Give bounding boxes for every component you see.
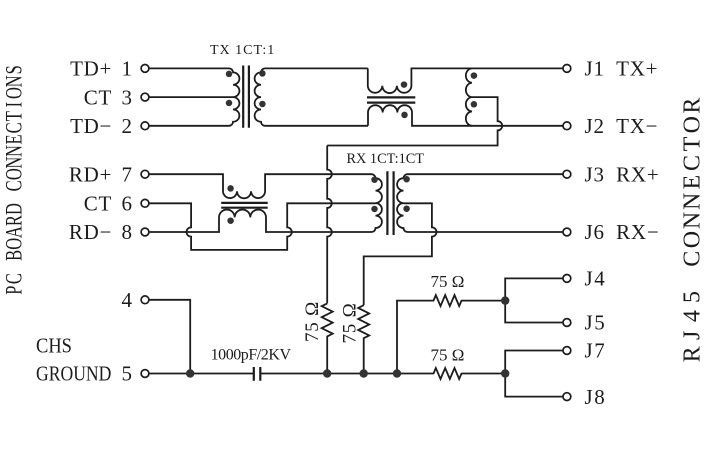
svg-text:O: O [2,238,27,250]
svg-text:75 Ω: 75 Ω [340,302,361,343]
junction dots on ground bus and resistor nodes [186,369,194,377]
L1 centre tap wire with hop over J2 line, down-left to R1 [327,97,502,145]
transformer T4 core [387,171,393,235]
svg-text:7: 7 [122,162,133,186]
svg-text:CT: CT [84,85,112,109]
svg-text:J2 TX−: J2 TX− [585,114,659,138]
J4 / J5 branch wires [505,278,563,322]
svg-text:E: E [2,134,27,144]
ground bus from C1 through resistor R4 to J7/J8 junction [260,368,505,379]
svg-text:4: 4 [122,288,133,312]
transformer T4 primary winding (left, centre-tapped) [372,174,382,232]
svg-text:4: 4 [680,310,705,322]
svg-text:N: N [680,212,705,229]
svg-text:1: 1 [122,57,133,81]
svg-text:TD−: TD− [70,114,112,138]
choke T3 core [221,203,268,208]
svg-text:B: B [2,250,27,261]
svg-text:A: A [2,226,27,238]
svg-text:RX 1CT:1CT: RX 1CT:1CT [347,151,425,167]
svg-text:C: C [680,155,705,171]
svg-text:C: C [2,180,27,191]
choke T2 bottom winding (in J2 line) [368,105,563,126]
choke T2 top winding (in J1 line) [368,68,563,93]
svg-text:O: O [2,87,27,99]
svg-text:75 Ω: 75 Ω [431,272,465,291]
svg-text:J4: J4 [585,267,607,291]
svg-text:3: 3 [122,85,133,109]
svg-text:5: 5 [122,362,133,386]
svg-text:R: R [680,98,705,114]
svg-text:C: C [680,251,705,267]
svg-text:J6 RX−: J6 RX− [585,220,660,244]
wire from TX tap down to R1 with hops over RX lines [327,146,332,304]
T4 polarity dots [371,176,378,183]
resistor R3 75 ohm from bus up to J4/J5 junction [397,295,505,373]
svg-text:J5: J5 [585,311,607,335]
resistor R1 75 ohm (vertical) [322,303,333,373]
transformer T1 core [243,66,249,128]
svg-text:N: N [680,193,705,210]
wire CT pin 3 to T1 primary centre tap [149,96,233,98]
resistor R2 75 ohm (vertical) [358,305,369,373]
L1 polarity dots [471,72,478,79]
side label RJ45 CONNECTOR [680,98,705,363]
svg-text:D: D [2,203,27,215]
svg-text:TX 1CT:1: TX 1CT:1 [210,43,275,58]
svg-text:CHS: CHS [36,335,72,358]
svg-text:CT: CT [84,192,112,216]
T3 polarity dots [227,185,234,192]
svg-text:J: J [680,331,705,340]
svg-text:R: R [2,215,27,227]
svg-text:C: C [2,122,27,133]
svg-text:R: R [680,346,705,362]
svg-text:6: 6 [122,192,133,216]
svg-text:N: N [2,157,27,169]
choke T2 core [367,97,415,102]
svg-text:GROUND: GROUND [36,363,111,386]
T1 polarity dots [226,71,233,78]
wire CT pin 6 routed under choke T3 to T4 centre tap (hops over RD- line) [149,203,376,250]
svg-text:N: N [2,75,27,87]
svg-text:J1 TX+: J1 TX+ [585,57,659,81]
svg-text:O: O [680,116,705,133]
T4 secondary winding (right, centre-tapped) with J3 / J6 wires [397,174,563,232]
svg-text:O: O [680,231,705,248]
svg-text:J8: J8 [585,385,607,409]
svg-text:P: P [2,286,27,295]
svg-text:C: C [2,273,27,284]
svg-text:E: E [680,175,705,190]
RJ45 pin terminals J1,J2,J3,J6,J4,J5,J7,J8 [563,65,571,73]
svg-text:2: 2 [122,114,133,138]
side label PC BOARD CONNECTIONS [2,65,27,295]
wire pin 4 down to ground bus [149,300,190,374]
svg-text:TD+: TD+ [70,57,112,81]
svg-text:J3 RX+: J3 RX+ [585,162,660,186]
capacitor C1 1000pF/2KV plates [254,367,260,381]
svg-text:T: T [680,136,705,151]
autotransformer L1 across J1/J2 lines [466,68,472,125]
svg-text:75 Ω: 75 Ω [302,301,323,342]
svg-text:O: O [2,168,27,180]
PC board pin terminals 1,3,2,7,6,8,4,5 [141,65,149,73]
svg-text:I: I [2,102,27,108]
ground bus from pin 5 to capacitor C1 [149,373,254,375]
svg-text:RD+: RD+ [69,162,112,186]
svg-text:5: 5 [680,291,705,303]
svg-text:J7: J7 [585,339,607,363]
svg-text:S: S [2,65,27,74]
wire RD+ pin 7 to choke T3, T3 top winding, wire to T4 [149,174,372,198]
svg-text:RD−: RD− [69,220,112,244]
wire RD- pin 8 to choke T3, T3 bottom winding, wire to T4 [149,210,372,232]
svg-text:75 Ω: 75 Ω [431,345,465,364]
T2 polarity dots [401,81,408,88]
svg-text:8: 8 [122,220,133,244]
wire TD+ pin 1 to T1 and T1 primary winding (left, centre-tapped) [149,68,240,125]
T4 secondary tap wire with hop over J6 line, down-left to R2 [364,203,437,305]
svg-text:T: T [2,111,27,121]
svg-text:N: N [2,145,27,157]
J7 / J8 branch wires [505,351,563,397]
T1 secondary winding (right) and wires to choke T2 [255,68,368,125]
svg-text:1000pF/2KV: 1000pF/2KV [211,347,292,364]
